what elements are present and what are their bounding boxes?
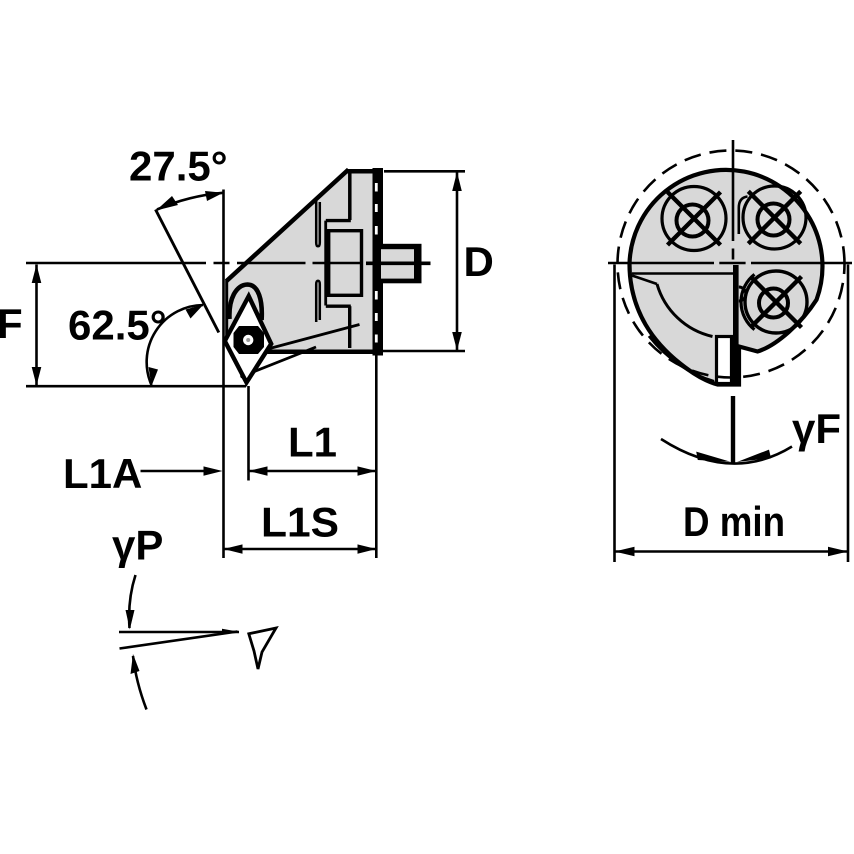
coupling contour: upper tooth vertical <box>348 172 352 220</box>
coupling contour: lower tooth vertical <box>348 306 351 348</box>
D dimension: top extension line <box>384 170 465 173</box>
62.5 arc arrowhead bottom <box>149 367 159 386</box>
coupling contour: upper tooth horizontal <box>326 219 351 222</box>
L1A arrowhead <box>204 466 223 475</box>
D dimension: bottom extension line <box>383 350 465 353</box>
svg-text:γP: γP <box>112 522 163 569</box>
F dimension: bottom reference line <box>26 385 246 388</box>
gammaP wedge at right end <box>222 629 239 635</box>
body left vertical edge <box>225 279 228 341</box>
D min dimension line <box>615 550 849 553</box>
D min dashed circle <box>618 151 845 378</box>
body bottom edge <box>268 350 377 355</box>
gammaF arc <box>661 439 792 464</box>
62.5 degree dimension arc <box>147 305 203 385</box>
svg-text:F: F <box>0 300 23 347</box>
gammaF arrow right of centerline <box>737 450 771 462</box>
coupling contour: middle rectangle tooth <box>329 231 362 296</box>
insert end rectangle <box>717 337 732 384</box>
stub outer black frame <box>378 244 422 283</box>
screw hole 2 outer <box>743 186 806 249</box>
screw hole 2 cross <box>748 191 800 243</box>
svg-text:D min: D min <box>683 498 785 545</box>
svg-text:D: D <box>464 238 494 285</box>
L1 extension line (insert tip) <box>247 386 250 481</box>
insert diamond <box>225 296 271 382</box>
D min left extension line <box>613 265 616 563</box>
stub gray interior <box>381 249 414 278</box>
pocket inner arc <box>657 284 713 337</box>
svg-text:62.5°: 62.5° <box>68 302 167 349</box>
vertical centerline bold segment below <box>731 396 735 464</box>
cartridge bottom inner arc <box>649 336 714 382</box>
small bump on insert edge <box>739 287 746 301</box>
screw hole 1 outer <box>662 187 726 251</box>
gammaP horizontal line <box>119 631 239 634</box>
gammaP lower arc <box>133 656 147 710</box>
pocket step segment <box>632 276 657 285</box>
coupling contour: left vertical between teeth <box>324 221 327 306</box>
D min arrow left <box>615 547 635 557</box>
F dimension line <box>35 265 38 386</box>
L1S dimension line <box>224 548 377 551</box>
D arrow down <box>452 332 462 351</box>
gammaP lower arrow <box>131 654 140 674</box>
slot hook near top centerline <box>739 197 748 235</box>
gammaP sloped line <box>120 632 238 649</box>
F arrow down <box>32 367 42 386</box>
svg-text:L1S: L1S <box>261 499 339 546</box>
vertical centerline of front view <box>732 140 735 260</box>
L1 arrow left <box>249 466 268 475</box>
svg-text:L1A: L1A <box>63 450 142 497</box>
screw hole <box>243 335 253 345</box>
pocket diagonal line A <box>270 325 360 349</box>
27.5 arc arrowhead left <box>156 196 178 211</box>
flange black bar <box>373 168 384 356</box>
horizontal centerline of front view <box>608 262 852 265</box>
D dimension line <box>456 172 459 351</box>
27.5 arc arrowhead right <box>205 191 223 201</box>
toolholder body (gray silhouette) <box>225 170 373 383</box>
L1S arrow left <box>224 544 243 553</box>
gammaP upper arrow <box>126 610 135 630</box>
screw hole 2 inner <box>758 204 790 236</box>
svg-text:γF: γF <box>792 405 841 452</box>
stub thick centerline <box>366 261 431 265</box>
screw hole 1 inner <box>677 205 709 237</box>
insert screw head <box>234 326 265 354</box>
svg-text:27.5°: 27.5° <box>129 143 228 190</box>
screw center dot <box>246 338 250 342</box>
gammaP upper arc <box>129 575 135 628</box>
small insert glyph <box>249 628 276 669</box>
pocket diagonal line B <box>241 347 317 377</box>
L1A leader line <box>141 470 213 473</box>
flange dashed groove line (white dashes) <box>375 183 378 343</box>
screw hole 3 outer <box>745 271 807 333</box>
pocket wall arc around hole 3 <box>741 274 754 329</box>
lower spring slot <box>316 281 320 322</box>
horizontal centerline of stub axis <box>26 262 362 265</box>
body top edge <box>346 169 374 174</box>
front body silhouette <box>630 170 823 385</box>
screw hole 1 cross <box>668 192 721 245</box>
screw hole 3 cross <box>751 277 802 328</box>
upper spring slot <box>316 200 320 246</box>
D min arrow right <box>828 547 848 557</box>
body slanted left edge <box>227 170 349 282</box>
L1 arrow right <box>358 466 377 475</box>
screw hole 3 inner <box>759 289 788 318</box>
insert thick edge line <box>733 265 739 385</box>
D arrow up <box>452 172 462 191</box>
27.5 degree slanted reference line <box>156 210 219 333</box>
L1S arrow right <box>358 544 377 553</box>
F arrow up <box>32 265 42 284</box>
svg-text:L1: L1 <box>288 419 337 466</box>
D min right extension line <box>847 265 850 563</box>
coupling contour: lower tooth horizontal <box>326 305 351 308</box>
gammaF arrow left of centerline <box>696 452 730 462</box>
62.5 arc arrowhead top <box>186 305 204 319</box>
pocket floor thin line <box>632 272 734 275</box>
L1 dimension line <box>249 470 377 473</box>
27.5 degree dimension arc <box>157 193 223 210</box>
clamp arch over insert tip <box>229 285 261 321</box>
vertical extension line through insert left vertex <box>222 190 225 559</box>
right extension line (flange right) <box>375 356 378 559</box>
